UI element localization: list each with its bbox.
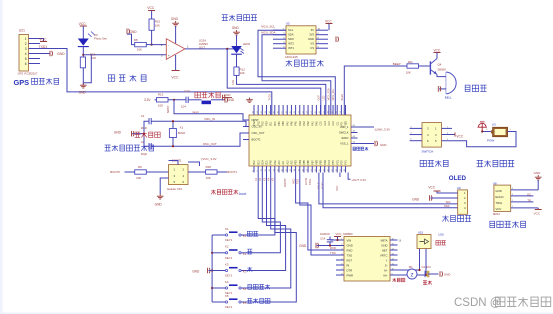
svg-text:GND: GND [57, 52, 65, 56]
power flag VCC ultrasonic [533, 208, 541, 216]
label three-axis sensor [286, 60, 324, 66]
svg-text:SCL: SCL [288, 28, 294, 32]
svg-text:A12: A12 [286, 160, 289, 165]
svg-text:10K: 10K [240, 71, 245, 75]
svg-text:VCC: VCC [39, 37, 47, 41]
svg-text:VCC: VCC [171, 75, 179, 79]
button K3 [225, 262, 241, 277]
svg-text:S8050: S8050 [438, 67, 447, 71]
label boot mode [211, 190, 246, 196]
svg-text:MCU_SDA: MCU_SDA [261, 31, 275, 35]
svg-text:PB8: PB8 [317, 159, 319, 164]
svg-text:OSC_IN: OSC_IN [204, 117, 215, 121]
ground crystal [114, 130, 134, 136]
wire R10 to node [151, 30, 153, 45]
svg-text:VB3: VB3 [346, 120, 348, 125]
capacitor C14 [327, 237, 333, 246]
ground below R19 [79, 83, 87, 95]
svg-text:PA0: PA0 [316, 121, 319, 126]
svg-text:30pF: 30pF [141, 152, 148, 156]
svg-text:TXD: TXD [297, 179, 300, 184]
reset label [195, 92, 220, 98]
op-amp U22A LM393 [161, 39, 189, 60]
svg-text:GND: GND [299, 244, 307, 248]
svg-text:C13: C13 [184, 89, 190, 93]
svg-text:3: 3 [25, 47, 27, 51]
left page margin strip [0, 0, 3, 314]
svg-text:SDA: SDA [444, 204, 450, 208]
svg-text:3V3: 3V3 [309, 33, 314, 37]
wire K3 net [246, 173, 286, 271]
buzzer BELL [445, 72, 456, 100]
svg-text:GND: GND [114, 130, 122, 134]
wire K4 net [246, 173, 291, 289]
net label NRST [166, 105, 170, 113]
svg-text:10K: 10K [158, 104, 163, 108]
svg-text:CS: CS [310, 46, 314, 50]
net wire to op-amp pin3 [83, 54, 166, 56]
wire K1 net [246, 173, 275, 236]
svg-text:NET: NET [382, 248, 388, 252]
label lighting indicator [222, 15, 257, 21]
GPS part text [18, 71, 38, 75]
power flag VCC OLED [428, 186, 447, 193]
svg-text:Q4: Q4 [438, 62, 442, 66]
svg-text:10K: 10K [206, 176, 211, 180]
svg-text:VCC: VCC [79, 22, 87, 26]
GPS pin wires [29, 39, 41, 64]
svg-text:M+: M+ [384, 273, 388, 277]
svg-text:S-: S- [385, 263, 388, 267]
svg-text:PB0: PB0 [283, 120, 285, 125]
capacitor C2 [141, 140, 152, 156]
svg-text:DTR: DTR [347, 268, 353, 272]
svg-text:10K: 10K [406, 70, 411, 74]
capacitor C1 [141, 114, 152, 130]
net label BOOT1 top [172, 158, 182, 162]
capacitor C14 labels [320, 232, 330, 240]
label microphone [393, 278, 405, 282]
transistor Q4 [430, 59, 446, 75]
wire boot0 [125, 171, 169, 173]
svg-text:VCC: VCC [335, 185, 339, 191]
svg-text:C14: C14 [320, 236, 326, 240]
svg-text:BOOT0: BOOT0 [110, 170, 120, 174]
ground MCU right [358, 141, 387, 147]
wire speaker M- [390, 249, 420, 271]
svg-text:B13: B13 [258, 160, 260, 165]
svg-text:BEEP: BEEP [393, 62, 401, 66]
power flag VCC SIM800 [334, 232, 353, 240]
svg-text:BOOT0: BOOT0 [284, 178, 287, 187]
svg-text:KEY1: KEY1 [225, 305, 233, 309]
svg-text:VRTC: VRTC [380, 253, 388, 257]
svg-text:boot: boot [239, 192, 246, 196]
svg-text:GND: GND [155, 203, 163, 207]
svg-text:GND: GND [347, 243, 353, 247]
wire OSC_OUT [151, 133, 249, 147]
svg-text:BEEP: BEEP [341, 93, 344, 100]
svg-text:K3: K3 [225, 262, 229, 266]
svg-text:POW: POW [487, 138, 494, 142]
svg-text:P5V: P5V [267, 121, 269, 126]
wire TXD to SIM800 [300, 173, 344, 256]
ultrasonic body [494, 185, 511, 211]
svg-text:VCC_SIM800: VCC_SIM800 [336, 232, 354, 236]
ADXL345 part label [285, 55, 298, 59]
svg-text:3.3V: 3.3V [144, 98, 151, 102]
svg-text:BOOT1: BOOT1 [252, 138, 262, 142]
MCU right pin names [339, 125, 349, 146]
svg-text:[VCC_3.3V: [VCC_3.3V [202, 157, 217, 161]
svg-text:M-: M- [384, 268, 387, 272]
svg-text:PB1: PB1 [279, 120, 281, 125]
ground speaker right [440, 271, 450, 277]
svg-text:6: 6 [25, 62, 27, 66]
svg-text:BOOT1: BOOT1 [227, 170, 237, 174]
MCU top inner pin names [254, 120, 348, 125]
net label BOOT0 [110, 170, 120, 174]
svg-text:PA3: PA3 [303, 121, 306, 126]
resistor R19 [80, 52, 96, 67]
label filter [423, 281, 432, 285]
svg-text:K5: K5 [225, 294, 229, 298]
ground ADXL [336, 36, 339, 42]
svg-text:4: 4 [25, 52, 27, 56]
svg-text:KEY1: KEY1 [225, 256, 233, 260]
svg-text:C15: C15 [321, 121, 323, 126]
ground boot [155, 194, 164, 207]
LED LED4 [231, 42, 250, 54]
svg-text:U3: U3 [492, 123, 496, 127]
ground above jack [478, 122, 487, 132]
net label BOOT1 right [227, 170, 237, 174]
svg-text:TRIG: TRIG [496, 201, 503, 205]
svg-text:VCC: VCC [428, 186, 435, 190]
power flag VCC photodiode [79, 22, 87, 39]
svg-text:VCC: VCC [534, 212, 541, 216]
net label MCU_SCL [261, 24, 275, 28]
svg-text:10K: 10K [136, 176, 141, 180]
wire OUT3.3 flag [348, 173, 366, 182]
ADXL left pin stubs [273, 29, 286, 49]
power flag VCC below MCU [335, 173, 340, 192]
svg-text:TXD: TXD [330, 251, 336, 255]
wire RXD to SIM800 [296, 173, 344, 251]
svg-text:GPS: GPS [14, 78, 30, 87]
svg-text:TRIG: TRIG [309, 179, 312, 185]
svg-text:SR04: SR04 [493, 212, 500, 216]
svg-text:GND: GND [232, 26, 240, 30]
switch designator [423, 123, 427, 127]
SIM800 left stubs [336, 239, 344, 276]
svg-text:PWR: PWR [347, 273, 354, 277]
label power switch [420, 160, 448, 166]
power jack U3 [486, 127, 511, 136]
ground above LED4 [232, 26, 240, 46]
svg-text:PB3: PB3 [296, 159, 298, 164]
svg-text:I-: I- [386, 258, 388, 262]
wire op-amp output [185, 48, 236, 50]
wire loop right of R19 [83, 55, 91, 83]
wire jack left pin [481, 130, 491, 132]
svg-text:MCU_SCL: MCU_SCL [332, 88, 335, 101]
svg-text:GND: GND [534, 171, 542, 175]
svg-text:(LINK_3.3V: (LINK_3.3V [375, 127, 391, 131]
power flag VCC_3.3V boot [202, 157, 217, 161]
label light sampling [108, 75, 146, 81]
svg-text:GND: GND [79, 91, 87, 95]
MCU left pin names [252, 118, 265, 142]
label power input [477, 160, 515, 166]
svg-text:10K: 10K [155, 24, 160, 28]
button bus vertical [211, 235, 246, 302]
svg-text:INT2: INT2 [288, 42, 294, 46]
capacitor C2 104 [422, 265, 431, 277]
net label SCL oled [446, 200, 452, 204]
wire LED to R12 [236, 54, 238, 67]
wire C2 to gnd [428, 273, 439, 275]
svg-text:PA7: PA7 [286, 121, 289, 126]
svg-text:EC: EC [527, 192, 531, 196]
SIM800 designator [438, 232, 444, 236]
svg-text:LD1: LD1 [231, 79, 235, 84]
svg-text:K1: K1 [243, 234, 247, 238]
label MCU minimum system [105, 145, 154, 151]
connector U21 GPS header [19, 35, 29, 72]
svg-text:U21: U21 [19, 29, 25, 33]
svg-text:PA6: PA6 [291, 121, 294, 126]
MCU STM32 body [249, 115, 351, 166]
svg-text:RST: RST [347, 258, 353, 262]
svg-text:GND: GND [171, 17, 179, 21]
ground OLED [412, 195, 458, 201]
svg-text:-: - [168, 44, 169, 48]
wire K2 net [246, 173, 280, 253]
svg-text:PB4: PB4 [300, 159, 302, 164]
ultrasonic part label [493, 212, 500, 216]
wire K5 net [246, 173, 296, 303]
wire SCL to MCU [258, 30, 335, 115]
svg-text:SWCLK: SWCLK [339, 131, 349, 135]
net label TXD1 on GPS pin 3 [39, 45, 48, 49]
svg-text:R13: R13 [158, 92, 164, 96]
wire Q4 emitter to bell [437, 75, 446, 77]
ADXL right pin stubs [316, 29, 328, 49]
svg-text:10K: 10K [137, 47, 142, 51]
SIM800 body [344, 237, 390, 282]
power flag LINK_3.3V [358, 127, 391, 131]
svg-text:VCC: VCC [456, 134, 463, 138]
label K1 set [243, 231, 258, 238]
wire boot vcc [188, 162, 200, 166]
OLED designator [457, 186, 461, 190]
wire SCL to OLED [319, 173, 458, 204]
power flag VCC op-amp top [147, 6, 155, 19]
svg-text:SDO: SDO [288, 37, 294, 41]
svg-text:R18: R18 [206, 165, 212, 169]
net label TXD sim [330, 251, 336, 255]
SIM800 right stubs [390, 239, 402, 276]
wire VIN [330, 239, 344, 241]
svg-text:X1: X1 [180, 126, 184, 130]
svg-text:K1: K1 [225, 227, 229, 231]
svg-text:SCL: SCL [446, 200, 452, 204]
ground buttons [192, 268, 212, 274]
ADXL345 body [286, 26, 316, 54]
label buzzer [465, 85, 486, 91]
svg-text:PG1: PG1 [258, 120, 260, 125]
watermark CSDN [454, 297, 551, 309]
svg-text:B14: B14 [262, 160, 264, 165]
connector U21 designator [19, 29, 25, 33]
jack label POW [487, 138, 494, 142]
svg-text:PA9: PA9 [274, 160, 277, 165]
svg-text:GND: GND [192, 269, 200, 273]
svg-text:C2 104: C2 104 [422, 265, 431, 269]
svg-text:OSC_OUT: OSC_OUT [203, 142, 217, 146]
net labels above MCU top pins [269, 88, 345, 101]
net label LD1 [231, 79, 235, 84]
ground reset [225, 97, 235, 103]
svg-text:+OUT 3.3V: +OUT 3.3V [351, 178, 366, 182]
label ultrasonic module [490, 221, 526, 227]
wire R13 to C13 [168, 99, 186, 101]
wire BEEP from MCU [344, 66, 407, 115]
resistor R18 [206, 165, 217, 180]
svg-text:U20: U20 [438, 232, 444, 236]
MCU right pin stubs [351, 125, 358, 144]
net labels below MCU pins [255, 177, 325, 189]
svg-text:A15: A15 [291, 160, 294, 165]
svg-text:104: 104 [181, 105, 186, 109]
svg-text:MCU_SDA: MCU_SDA [328, 88, 331, 101]
capacitor C13 [181, 89, 190, 109]
ultrasonic designator [493, 182, 497, 186]
wire header bottom gnd [160, 178, 168, 194]
svg-text:PC3: PC3 [329, 159, 331, 164]
svg-text:B10: B10 [275, 121, 277, 126]
ground on GPS pin 4 [29, 51, 66, 57]
svg-text:MCU_SCL: MCU_SCL [261, 24, 275, 28]
svg-text:ECHO: ECHO [305, 178, 308, 185]
svg-text:C1: C1 [141, 114, 145, 118]
wire OUT net to MCU [227, 49, 321, 115]
resistor R8 [134, 38, 147, 52]
button K4 [225, 280, 241, 295]
speaker U15 [417, 235, 431, 249]
svg-text:RI: RI [347, 263, 350, 267]
svg-text:8MHz: 8MHz [178, 131, 186, 135]
svg-text:TXD1: TXD1 [269, 94, 272, 101]
wire SIM gnd pin [329, 244, 344, 246]
svg-text:SDA: SDA [288, 33, 294, 37]
svg-text:K3: K3 [243, 270, 247, 274]
svg-text:NRST: NRST [166, 105, 170, 113]
svg-text:VIN: VIN [347, 238, 352, 242]
svg-text:GND: GND [444, 273, 450, 277]
wire OSC_IN [151, 117, 249, 127]
svg-text:PA5: PA5 [295, 121, 298, 126]
wire speaker M+ [390, 249, 426, 276]
microphone M1 [407, 265, 427, 279]
label K3 minus [243, 267, 253, 274]
wire R11 to Q4 base [419, 65, 430, 67]
wire R18 [188, 171, 227, 173]
ADXL345 designator [286, 21, 290, 25]
net label MCU_SDA [261, 31, 275, 35]
svg-text:C12: C12 [333, 121, 335, 126]
MCU left pin stubs [243, 120, 249, 140]
label LCD display [442, 215, 471, 221]
svg-text:K2: K2 [243, 252, 247, 256]
svg-text:PA1: PA1 [311, 121, 314, 126]
OLED connector U9 [458, 190, 468, 214]
svg-text:VCC: VCC [325, 19, 332, 23]
svg-text:RXD: RXD [330, 246, 336, 250]
net label BEEP [393, 62, 401, 66]
svg-text:GND: GND [224, 93, 230, 97]
wire TXD1 from GPS to MCU [29, 49, 272, 116]
label K2 add [243, 249, 253, 256]
op-amp labels [199, 38, 208, 49]
power flag VCC buzzer [434, 48, 441, 58]
switch right stubs [442, 127, 459, 141]
svg-text:GND: GND [380, 143, 386, 147]
resistor R11 [406, 60, 419, 75]
wire R19 bottom to ground [82, 68, 84, 86]
resistor R13 [157, 92, 169, 107]
resistor R10 [149, 19, 160, 30]
net label RXD sim [330, 246, 336, 250]
label GPS positioning module [14, 78, 59, 87]
svg-text:PB6: PB6 [308, 159, 310, 164]
svg-text:KEY1: KEY1 [225, 238, 233, 242]
svg-text:PV1: PV1 [346, 159, 348, 164]
svg-text:K5: K5 [243, 301, 247, 305]
svg-text:ADXL345: ADXL345 [285, 55, 298, 59]
ground near MCU top [223, 93, 253, 103]
svg-text:PG1: PG1 [337, 159, 339, 164]
svg-text:U9: U9 [457, 186, 461, 190]
svg-text:KEY1: KEY1 [225, 274, 233, 278]
svg-text:+: + [168, 54, 170, 58]
svg-text:INT1: INT1 [288, 46, 294, 50]
svg-text:VCC: VCC [496, 207, 502, 211]
svg-text:B12: B12 [254, 160, 256, 165]
svg-text:PB9: PB9 [321, 159, 323, 164]
svg-text:TR: TR [527, 198, 531, 202]
svg-text:VCC: VCC [147, 6, 155, 10]
speaker U15 designator [418, 231, 424, 235]
svg-text:K4: K4 [225, 280, 229, 284]
svg-text:GND: GND [412, 197, 420, 201]
label crystal circuit [135, 132, 160, 138]
wire R8 to op-amp pin2 [146, 44, 166, 46]
OLED pin stubs [447, 193, 458, 198]
svg-text:GND: GND [381, 243, 387, 247]
svg-text:SWITCH: SWITCH [422, 150, 434, 154]
label K5 dial call [243, 298, 270, 305]
svg-text:5: 5 [25, 57, 27, 61]
power flag VCC ADXL [325, 19, 333, 30]
svg-text:GND: GND [227, 98, 235, 102]
svg-text:CSDN @: CSDN @ [454, 297, 501, 309]
svg-text:SWIO: SWIO [341, 136, 348, 140]
svg-text:PA4: PA4 [299, 121, 302, 126]
button K1 [225, 227, 241, 242]
switch body [422, 123, 442, 148]
